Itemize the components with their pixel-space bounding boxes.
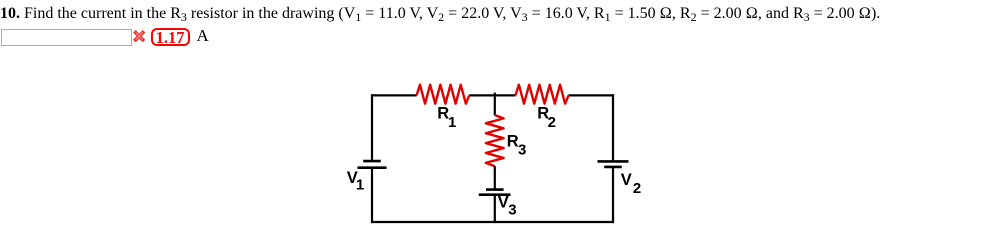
wire: middle branch below battery V3 to bottom rail xyxy=(494,195,496,223)
svg-text:3: 3 xyxy=(518,141,526,158)
wire: top rail left segment xyxy=(371,94,417,96)
wire: right rail lower (battery V2 to bottom rail) xyxy=(612,167,614,223)
wire: left rail lower (battery V1 to bottom rail) xyxy=(371,168,373,223)
wire: right rail upper (top corner down to battery V2) xyxy=(612,94,614,161)
battery V3 short plate (top) xyxy=(486,188,504,191)
circuit schematic xyxy=(330,75,670,229)
svg-text:V: V xyxy=(621,171,632,189)
wrong-answer X mark xyxy=(133,30,146,43)
wire: top rail middle segment (node between R1 and R2) xyxy=(469,94,515,96)
wire: middle branch lower (R3 down to battery V3) xyxy=(494,166,496,188)
battery V1 short plate (top) xyxy=(363,160,381,163)
resistor R3 xyxy=(486,115,504,166)
svg-text:R: R xyxy=(507,133,519,151)
svg-text:3: 3 xyxy=(508,202,516,219)
problem text xyxy=(0,5,880,23)
wire: middle branch upper (junction down to R3) xyxy=(494,95,496,115)
wire: bottom rail xyxy=(371,221,614,223)
svg-text:1: 1 xyxy=(448,114,456,131)
wire: top rail right segment xyxy=(569,94,615,96)
answer input box xyxy=(1,29,132,47)
battery V1 long plate (bottom) xyxy=(358,166,387,169)
svg-text:2: 2 xyxy=(548,114,556,131)
svg-text:V: V xyxy=(498,193,509,211)
node: junction of R1/R2/middle branch with stub above rail xyxy=(494,93,496,97)
graded answer key box xyxy=(151,28,190,47)
battery V2 long plate (top) xyxy=(598,160,629,163)
resistor R1 xyxy=(417,85,470,104)
battery V3 long plate (bottom) xyxy=(479,193,511,196)
unit A xyxy=(197,26,209,46)
svg-text:1: 1 xyxy=(356,177,364,194)
svg-text:2: 2 xyxy=(633,180,641,197)
wire: left rail upper (top corner down to battery V1) xyxy=(371,94,373,160)
battery V2 short plate (bottom) xyxy=(604,166,622,169)
resistor R2 xyxy=(516,85,569,104)
